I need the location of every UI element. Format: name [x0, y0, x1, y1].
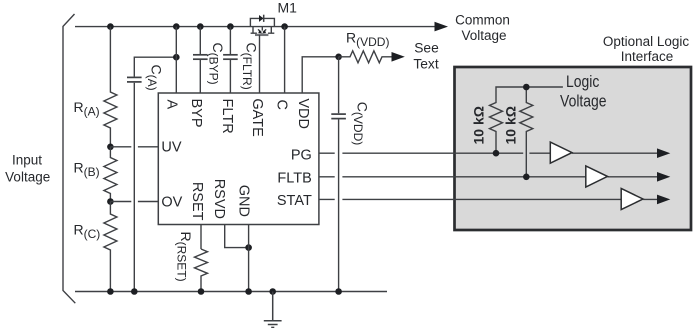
svg-text:OV: OV [161, 194, 182, 210]
junction logic voltage node [523, 84, 530, 91]
wire STAT net (break at C(VDD) line) [319, 198, 661, 200]
resistor R(RSET) [195, 249, 208, 292]
svg-text:PG: PG [291, 148, 312, 164]
svg-text:C: C [274, 100, 290, 110]
see text arrowhead [392, 52, 405, 62]
svg-text:C(VDD): C(VDD) [351, 102, 371, 145]
wire GND pin [248, 225, 250, 292]
svg-text:Voltage: Voltage [560, 92, 606, 110]
svg-text:FLTR: FLTR [219, 99, 235, 134]
junction C(A) tap on A line [173, 54, 180, 61]
input voltage bracket [63, 14, 75, 303]
junction bottom rail ground stem [269, 288, 276, 295]
junction OV node [107, 198, 114, 205]
svg-text:R(VDD): R(VDD) [346, 30, 389, 50]
junction pull-up 2 on FLTB [523, 174, 530, 181]
svg-text:Voltage: Voltage [5, 169, 50, 184]
svg-text:Interface: Interface [621, 49, 674, 64]
wire FLTB net (break at C(VDD) line) [319, 176, 661, 178]
junction bottom rail GND [245, 288, 252, 295]
svg-text:Voltage: Voltage [461, 28, 506, 43]
svg-text:FLTB: FLTB [277, 170, 311, 186]
buffer 2 [586, 166, 608, 187]
svg-text:A: A [164, 100, 180, 110]
junction bottom rail C(A) [131, 288, 138, 295]
svg-text:R(RSET): R(RSET) [175, 232, 195, 282]
junction top rail BYP [197, 23, 204, 30]
junction bottom rail R(C) [107, 288, 114, 295]
svg-text:R(B): R(B) [74, 160, 100, 180]
wire RSET pin [200, 225, 202, 250]
svg-text:M1: M1 [278, 0, 298, 15]
PG output arrowhead [657, 148, 670, 158]
junction top rail R(A) [107, 23, 114, 30]
buffer 3 [621, 189, 643, 210]
svg-text:Logic: Logic [566, 73, 600, 91]
resistor R(C) [104, 202, 117, 292]
capacitor C(BYP) [193, 27, 208, 93]
junction UV node [107, 144, 114, 151]
junction bottom rail RSET [198, 288, 205, 295]
resistor R(A) [104, 27, 117, 147]
wire RSVD pin [225, 225, 249, 248]
wire VDD pin riser [302, 57, 338, 93]
wire: bottom ground rail [75, 291, 387, 293]
junction top rail FLTR [227, 23, 234, 30]
wire A pin riser [175, 27, 177, 93]
svg-text:See: See [414, 41, 439, 56]
capacitor C(VDD) [331, 57, 346, 292]
capacitor C(FLTR) [223, 27, 238, 93]
svg-text:C(FLTR): C(FLTR) [240, 43, 259, 90]
svg-text:STAT: STAT [277, 193, 312, 209]
wire UV pin to divider (break at C(A) line) [110, 146, 158, 148]
wire OV pin to divider (break at C(A) line) [110, 201, 158, 203]
common voltage arrowhead [435, 22, 449, 32]
M1 body diode [259, 15, 264, 22]
transistor M1 [250, 18, 274, 93]
svg-text:GND: GND [235, 185, 251, 217]
svg-text:Common: Common [455, 12, 510, 27]
buffer 1 [550, 142, 572, 163]
junction RSVD-GND [245, 244, 252, 251]
svg-text:C(BYP): C(BYP) [207, 43, 227, 85]
capacitor C(A) [127, 57, 176, 291]
wire C pin riser [284, 27, 286, 93]
junction bottom rail C(VDD) [335, 288, 342, 295]
svg-text:Optional Logic: Optional Logic [603, 34, 690, 49]
resistor R(B) [104, 147, 117, 202]
junction top rail C pin [281, 23, 288, 30]
svg-text:UV: UV [161, 139, 181, 155]
svg-text:Text: Text [413, 57, 438, 72]
svg-text:10 kΩ: 10 kΩ [502, 106, 518, 144]
svg-text:BYP: BYP [188, 99, 204, 128]
svg-text:R(A): R(A) [74, 99, 100, 119]
pull-up resistor 2 (10 kOhm) [520, 87, 533, 177]
junction pull-up 1 on PG [493, 150, 500, 157]
svg-text:RSET: RSET [189, 182, 205, 221]
resistor R(VDD) [339, 51, 393, 63]
svg-text:10 kΩ: 10 kΩ [471, 106, 487, 144]
M1 substrate arrow tips [258, 30, 262, 33]
wire PG net (breaks at C(VDD) line and pull-up 2 drop) [319, 152, 661, 154]
ground symbol [264, 292, 282, 328]
svg-text:RSVD: RSVD [211, 179, 227, 219]
FLTB output arrowhead [657, 172, 670, 182]
IC U1 body [158, 93, 319, 225]
junction top rail A pin [173, 23, 180, 30]
svg-text:C(A): C(A) [145, 65, 165, 91]
STAT output arrowhead [657, 195, 670, 205]
optional logic interface box [455, 67, 692, 230]
svg-text:GATE: GATE [249, 98, 265, 137]
svg-text:VDD: VDD [295, 98, 311, 129]
pull-up resistor 1 (10 kOhm) [490, 87, 563, 153]
svg-text:Input: Input [12, 152, 42, 167]
wire: top supply rail [75, 26, 437, 28]
svg-text:R(C): R(C) [74, 222, 101, 242]
junction VDD node [335, 54, 342, 61]
